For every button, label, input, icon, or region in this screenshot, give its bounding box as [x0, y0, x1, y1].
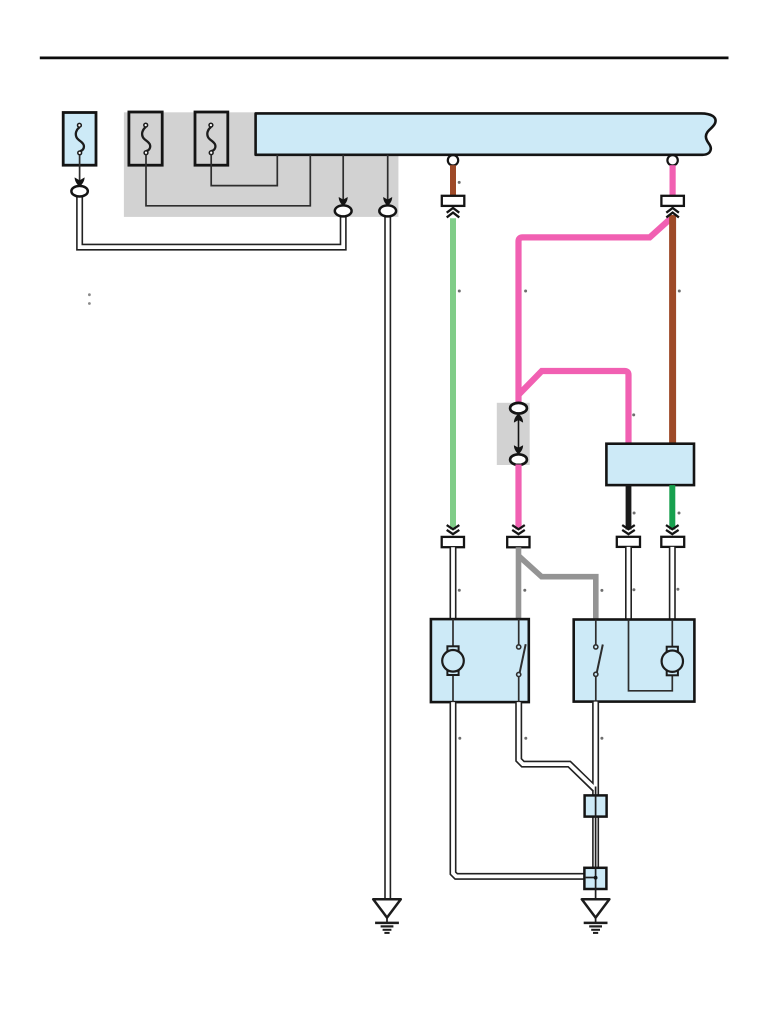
white wire from connector A3 to left ground (casing) [384, 212, 391, 899]
connector A3 (ellipse) [379, 205, 396, 216]
white wire connector C3 to right box (casing) [625, 547, 632, 621]
right switch SW2 [594, 620, 603, 702]
footnote dots top-left [88, 293, 91, 305]
top rule [40, 57, 729, 60]
connector C4 (down chevrons into rect) [661, 525, 684, 547]
black wire relay to connector C3 [626, 485, 632, 529]
pink wire bus to connector B2 [669, 165, 675, 196]
white wire left motor to junction box J2 (casing) [453, 702, 593, 876]
white wire connector C4 to right motor (casing) [669, 547, 676, 621]
pink wire connector D1 to connector C2 [515, 465, 521, 530]
left motor M1 symbol [442, 646, 464, 675]
connector D1 bottom ellipse [510, 454, 527, 465]
pink wire branch from connector B2 to splice column [519, 219, 671, 405]
2-pin connector pair D1 (gray backdrop) [497, 403, 530, 465]
green wire connector B1 down to connector C1 [450, 218, 456, 529]
junction box J1 [585, 795, 607, 816]
arrowhead into connector A1 [75, 177, 85, 186]
fuse F3 box [195, 112, 228, 165]
right actuator box M2 [574, 620, 695, 702]
gray wire connector C2 to left actuator switch [516, 547, 522, 619]
pink wire branch to relay pin [519, 371, 629, 445]
arrowhead into connector A2 [339, 197, 348, 206]
arrowhead into connector A3 [383, 197, 392, 206]
gray harness block backdrop [124, 112, 399, 217]
right ground G2 [582, 899, 610, 933]
connector A2 (ellipse) [335, 205, 352, 216]
connector C1 (down chevrons into rect) [442, 525, 464, 547]
left actuator box M1 [431, 619, 529, 702]
white wire left switch joining ground run (casing) [519, 702, 596, 790]
brown wire connector B2 to relay [669, 215, 676, 445]
connector B2 (rect with up chevrons) [661, 196, 684, 218]
bus pin wire to connector A3 [387, 155, 389, 200]
bus pin wire to connector A2 [342, 155, 344, 200]
connector D1 top ellipse [510, 403, 527, 414]
white wire right switch to ground (casing) [592, 702, 599, 878]
left motor lead wires [452, 619, 454, 648]
connector C2 (down chevrons into rect) [507, 525, 529, 547]
double arrow between D1 pins [514, 414, 523, 454]
wire fuse F1 down [79, 155, 81, 181]
fuse F2 box [129, 112, 162, 165]
left ground G1 [373, 899, 401, 933]
white wire fills at switch/ground junction [519, 702, 595, 789]
asterisk marks [458, 181, 681, 740]
junction box J2 [584, 868, 606, 889]
white wire connector C1 to left actuator motor (casing) [450, 547, 457, 620]
right motor M2 symbol [662, 647, 683, 676]
node circle on bus (brown feed) [448, 155, 458, 165]
brown wire bus to connector B1 [450, 165, 456, 196]
white wire from connector A1 to connector A2 (casing) [80, 193, 344, 247]
fuse F3 element [207, 123, 215, 154]
dark green wire relay to connector C4 [669, 485, 675, 529]
connector C3 (down chevrons into rect) [617, 525, 640, 547]
connector B1 (rect with up chevrons) [442, 196, 465, 218]
right motor lead + inner loop wire [629, 620, 673, 691]
left switch SW1 [517, 619, 526, 702]
wire fuse F3 to bus [211, 155, 277, 186]
conductor inside J2 from left [586, 877, 596, 879]
conductor through J1/J2 to right ground [595, 787, 597, 900]
junction bus bar B1 (light blue, torn right edge) [256, 113, 716, 154]
connector A1 (ellipse) [71, 186, 87, 197]
junction dot in J2 [594, 876, 598, 880]
gray wire branch to right actuator switch [519, 557, 596, 620]
relay R1 box [606, 444, 694, 485]
wire fuse F2 to bus [146, 155, 310, 206]
node circle on bus (pink feed) [667, 155, 677, 165]
fuse F1 box [63, 113, 96, 166]
fuse F2 element [142, 123, 150, 154]
fuse F1 element [76, 123, 84, 154]
